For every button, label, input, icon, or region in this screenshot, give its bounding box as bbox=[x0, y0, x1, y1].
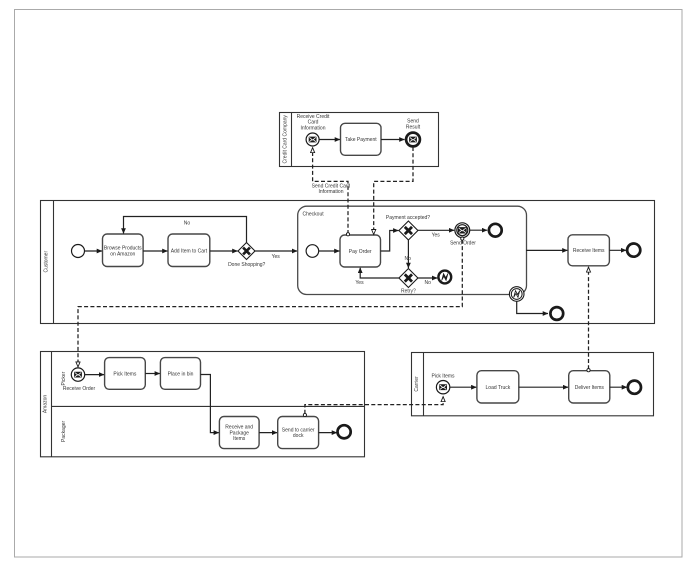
svg-text:Pay Order: Pay Order bbox=[349, 249, 372, 255]
task: Pick Items bbox=[105, 358, 146, 390]
svg-text:Information: Information bbox=[300, 125, 325, 131]
svg-text:Deliver Items: Deliver Items bbox=[575, 385, 605, 391]
sequence flow: Checkout to Receive Items bbox=[526, 249, 568, 251]
sequence flow: start to Browse Products bbox=[85, 250, 103, 252]
task: Receive and Package Items bbox=[219, 417, 259, 449]
svg-text:Packager: Packager bbox=[61, 421, 67, 442]
start event: checkout start bbox=[306, 245, 319, 258]
pool: Customer bbox=[41, 201, 655, 324]
pool: Carrier bbox=[412, 353, 654, 416]
gateway: Payment accepted? bbox=[399, 221, 418, 240]
svg-text:Yes: Yes bbox=[355, 280, 364, 286]
task: Load Truck bbox=[477, 371, 519, 403]
end event: carrier end bbox=[628, 381, 641, 394]
sequence flow: Place in bin to Receive and Package bbox=[201, 375, 219, 433]
sequence flow: Pick Items to Place in bin bbox=[145, 373, 160, 375]
start event: Receive Order (message) bbox=[71, 368, 84, 381]
svg-text:Amazon: Amazon bbox=[42, 395, 48, 414]
end event: amazon end bbox=[338, 425, 351, 438]
sequence flow: Retry Yes loop to Pay Order bbox=[360, 268, 399, 278]
svg-text:Yes: Yes bbox=[272, 254, 281, 260]
task: Take Payment bbox=[341, 123, 382, 155]
svg-text:Picker: Picker bbox=[61, 371, 67, 385]
message flow: Pay Order to Receive Credit Card Information bbox=[313, 148, 350, 236]
start event: Pick Items carrier (message) bbox=[436, 381, 449, 394]
svg-text:Pick Items: Pick Items bbox=[113, 372, 137, 378]
sequence flow: Deliver Items to carrier end bbox=[610, 386, 627, 388]
lane divider: Picker / Packager bbox=[52, 405, 365, 407]
subprocess: Checkout bbox=[298, 206, 527, 294]
svg-text:Load Truck: Load Truck bbox=[486, 385, 511, 391]
sequence flow: Pay Order to Payment accepted gateway bbox=[381, 231, 399, 252]
sequence flow: gateway Yes to Checkout bbox=[255, 250, 297, 252]
task: Pay Order bbox=[340, 235, 381, 267]
svg-text:Receive Items: Receive Items bbox=[573, 248, 605, 254]
boundary event: error on Checkout bbox=[509, 287, 524, 302]
start event: customer start bbox=[72, 245, 85, 258]
sequence flow: Payment accepted Yes to Send Order bbox=[418, 229, 454, 231]
svg-text:Result: Result bbox=[406, 124, 421, 130]
sequence flow: Retry No to error end bbox=[418, 277, 437, 279]
sequence flow: Take Payment to Send Result bbox=[381, 139, 405, 141]
sequence flow: start to Take Payment bbox=[319, 139, 340, 141]
task: Add Item to Cart bbox=[168, 234, 210, 267]
sequence flow: Add Item to gateway bbox=[210, 250, 238, 252]
sequence flow: checkout start to Pay Order bbox=[319, 250, 340, 252]
svg-text:dock: dock bbox=[293, 433, 304, 439]
sequence flow: Browse to Add Item bbox=[143, 250, 167, 252]
end event: checkout end bbox=[489, 224, 502, 237]
message flow: Send Order to Receive Order bbox=[78, 237, 464, 367]
svg-text:Send Order: Send Order bbox=[450, 241, 476, 247]
svg-text:on Amazon: on Amazon bbox=[110, 251, 135, 257]
sequence flow: carrier start to Load Truck bbox=[450, 386, 477, 388]
svg-text:Done Shopping?: Done Shopping? bbox=[228, 262, 265, 268]
intermediate throw event: Send Order (message) bbox=[455, 223, 470, 238]
pool: Amazon bbox=[41, 352, 365, 457]
svg-text:Yes: Yes bbox=[432, 233, 441, 239]
message flow: Send to carrier dock to Pick Items (carrier) bbox=[303, 397, 443, 417]
svg-text:Receive Order: Receive Order bbox=[63, 386, 96, 392]
sequence flow: Receive and Package to Send to carrier dock bbox=[259, 432, 277, 434]
svg-text:Checkout: Checkout bbox=[303, 211, 325, 217]
sequence flow: Payment accepted No to Retry bbox=[407, 240, 409, 268]
svg-text:Carrier: Carrier bbox=[414, 376, 420, 392]
svg-text:Place in bin: Place in bin bbox=[168, 372, 194, 378]
svg-text:Retry?: Retry? bbox=[401, 289, 416, 295]
svg-text:Customer: Customer bbox=[43, 251, 49, 273]
svg-text:Take Payment: Take Payment bbox=[345, 137, 377, 143]
gateway: Retry? bbox=[399, 269, 418, 288]
task: Receive Items bbox=[568, 235, 609, 266]
sequence flow: Send Order to checkout end bbox=[470, 229, 488, 231]
sequence flow: Load Truck to Deliver Items bbox=[519, 386, 568, 388]
end event: Send Result (message) bbox=[406, 133, 420, 147]
task: Deliver Items bbox=[569, 371, 610, 403]
sequence flow: boundary to error end event bbox=[517, 301, 548, 313]
pool: Credit Card Company bbox=[280, 113, 439, 167]
svg-text:Information: Information bbox=[318, 189, 343, 195]
svg-text:No: No bbox=[424, 280, 431, 286]
svg-text:Add Item to Cart: Add Item to Cart bbox=[171, 249, 208, 255]
task: Place in bin bbox=[160, 358, 200, 390]
sequence flow: Receive Order to Pick Items bbox=[85, 374, 104, 376]
start event: Receive Credit Card Information (message) bbox=[306, 133, 319, 146]
svg-text:Payment accepted?: Payment accepted? bbox=[386, 215, 430, 221]
message flow: Send Result to Pay Order bbox=[374, 147, 413, 234]
message flow: Deliver Items to Receive Items bbox=[587, 267, 590, 372]
svg-text:Credit Card Company: Credit Card Company bbox=[282, 115, 288, 164]
task: Browse Products on Amazon bbox=[103, 234, 144, 267]
sequence flow: Receive Items to customer end bbox=[609, 249, 626, 251]
svg-text:No: No bbox=[404, 256, 411, 262]
task: Send to carrier dock bbox=[278, 417, 319, 449]
svg-text:Items: Items bbox=[233, 436, 246, 442]
end event: error end (payment failed) bbox=[438, 271, 451, 284]
svg-text:No: No bbox=[184, 220, 191, 226]
sequence flow: gateway No loop to Browse Products bbox=[124, 217, 247, 243]
end event: customer end bbox=[627, 244, 640, 257]
gateway: Done Shopping? bbox=[238, 243, 255, 260]
svg-text:Pick Items: Pick Items bbox=[431, 374, 455, 380]
end event: after boundary bbox=[550, 307, 563, 320]
sequence flow: Send to carrier dock to amazon end bbox=[319, 432, 337, 434]
